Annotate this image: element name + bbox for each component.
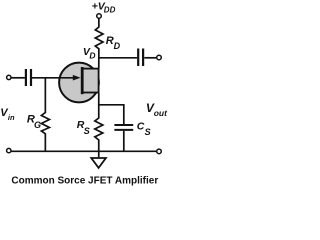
svg-text:DD: DD	[104, 5, 116, 14]
svg-text:in: in	[8, 113, 15, 122]
svg-text:Common Sorce JFET Amplifier: Common Sorce JFET Amplifier	[11, 175, 158, 186]
svg-text:C: C	[137, 120, 145, 132]
svg-text:D: D	[114, 41, 121, 51]
svg-text:G: G	[34, 120, 41, 130]
svg-text:S: S	[145, 127, 151, 137]
svg-text:D: D	[89, 51, 95, 61]
svg-text:R: R	[106, 35, 114, 47]
svg-text:S: S	[84, 126, 90, 136]
svg-text:out: out	[154, 108, 168, 118]
